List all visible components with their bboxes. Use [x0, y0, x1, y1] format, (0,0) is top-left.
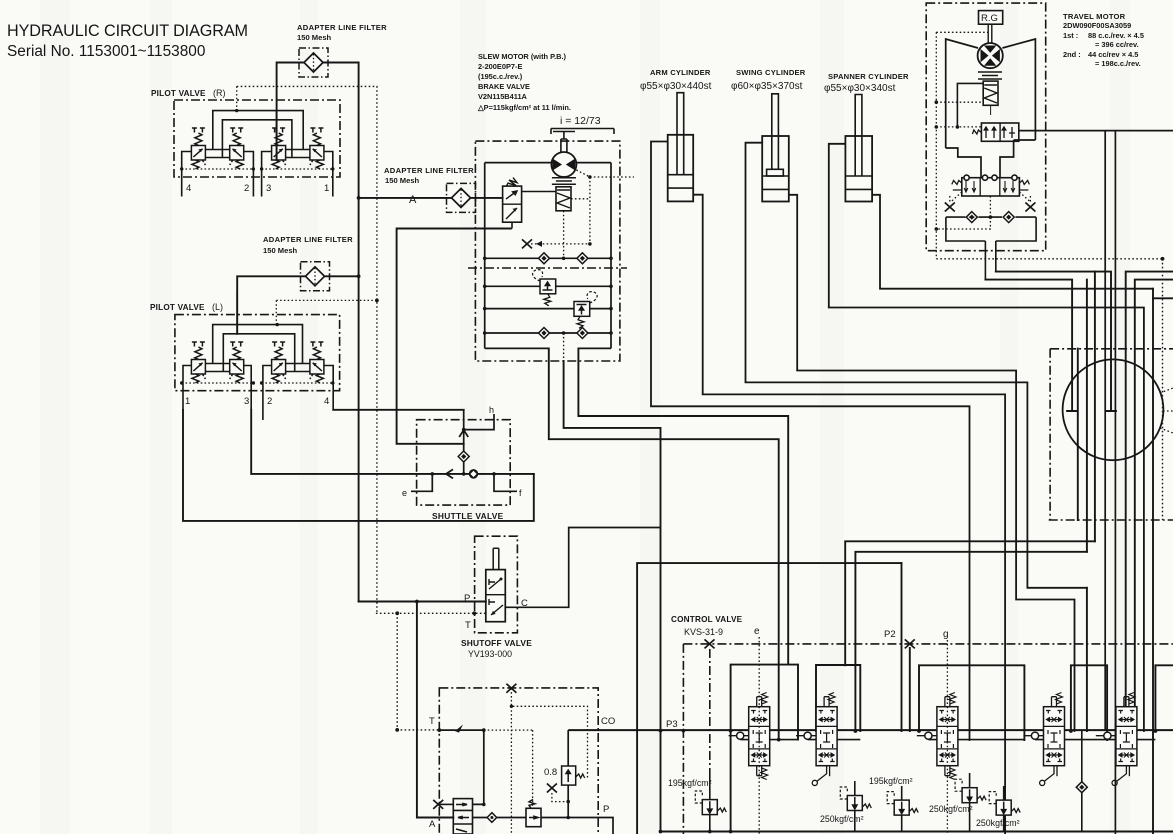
svg-text:P3: P3	[666, 719, 678, 730]
wire slew drain to CV tank bus	[564, 361, 661, 832]
dotted pilot lines bottom block	[455, 688, 588, 834]
right bus vertical	[610, 163, 612, 349]
dotted pilot verticals e and g	[759, 637, 947, 834]
bottom bus	[662, 831, 1173, 833]
wire swing cylinder rod side to CV	[797, 371, 1074, 732]
svg-text:R.G: R.G	[981, 13, 998, 24]
R.G box and shaft	[979, 11, 1003, 25]
svg-text:i = 12/73: i = 12/73	[560, 115, 601, 127]
svg-text:ADAPTER LINE FILTER: ADAPTER LINE FILTER	[263, 235, 353, 244]
svg-text:HYDRAULIC CIRCUIT DIAGRAM: HYDRAULIC CIRCUIT DIAGRAM	[7, 22, 248, 40]
wire arm cylinder rod side to CV	[703, 394, 1005, 834]
wire swivel vertical to CV spool 5	[1152, 289, 1154, 834]
svg-text:44 cc/rev × 4.5: 44 cc/rev × 4.5	[1088, 50, 1138, 59]
wire arm cylinder head side to CV	[651, 406, 970, 740]
pilot units R: 4 2 3 1	[191, 128, 205, 169]
svg-text:e: e	[754, 626, 760, 637]
svg-text:150 Mesh: 150 Mesh	[297, 33, 332, 42]
wire CV return bridge	[637, 563, 901, 834]
4way valve bottom left	[453, 799, 472, 834]
svg-text:h: h	[489, 405, 494, 415]
svg-text:(R): (R)	[213, 88, 226, 98]
svg-text:4: 4	[324, 396, 329, 407]
swing cylinder	[746, 94, 798, 383]
e branch	[411, 474, 432, 491]
svg-text:= 198c.c./rev.: = 198c.c./rev.	[1095, 59, 1141, 68]
wire shutoff C to control valve	[505, 528, 660, 608]
motor left supply line	[485, 163, 552, 259]
counterbalance valve	[952, 175, 1030, 196]
spool S3	[917, 693, 958, 766]
unit output stubs + port lines R	[182, 152, 192, 197]
bottom check bus	[946, 217, 1036, 280]
svg-text:150 Mesh: 150 Mesh	[263, 246, 298, 255]
wire slew port 1 to control valve spool 1	[549, 348, 779, 739]
compensator box	[526, 799, 541, 826]
svg-text:250kgf/cm²: 250kgf/cm²	[976, 818, 1020, 828]
wire travel motor line A to swivel joint bar	[996, 272, 1116, 411]
svg-text:195kgf/cm²: 195kgf/cm²	[869, 776, 913, 786]
T port solid segment	[439, 729, 484, 731]
svg-text:TRAVEL MOTOR: TRAVEL MOTOR	[1063, 12, 1126, 21]
svg-text:Serial No. 1153001~1153800: Serial No. 1153001~1153800	[7, 43, 205, 60]
arm cylinder	[651, 93, 703, 407]
wire spanner cylinder head side to CV	[829, 308, 1144, 732]
wire filter F3 to pilot valve L supply	[237, 276, 358, 334]
svg-text:4: 4	[186, 183, 191, 194]
svg-text:SLEW MOTOR (with P.B.): SLEW MOTOR (with P.B.)	[478, 52, 567, 61]
brake stack	[978, 72, 1002, 79]
dotted pilot feed into box	[236, 86, 238, 110]
dotted exit to travel motor	[590, 176, 634, 178]
svg-text:P: P	[603, 804, 609, 815]
block border	[475, 141, 620, 361]
dotted down to bottom block T	[397, 613, 439, 730]
h branch	[464, 414, 494, 430]
wire travel motor line B to swivel joint bar	[985, 280, 1077, 411]
PV(R) dash-dot enclosure	[174, 100, 340, 177]
wire filter F1 out, long vertical to shutoff P	[328, 63, 359, 602]
svg-text:3: 3	[244, 396, 249, 407]
dotted pilot net inside slew block	[531, 170, 634, 361]
brake valve bottom to left exit	[511, 222, 513, 228]
svg-text:1: 1	[324, 183, 329, 194]
svg-text:2: 2	[244, 183, 249, 194]
brake stack under motor	[552, 178, 576, 184]
spring on brake valve top	[507, 178, 518, 187]
drain dotted lines R	[182, 168, 333, 170]
svg-text:2nd :: 2nd :	[1063, 50, 1081, 59]
wire PV(L) port 3 to shuttle valve	[251, 410, 534, 474]
svg-text:SPANNER CYLINDER: SPANNER CYLINDER	[828, 72, 909, 81]
svg-text:g: g	[943, 629, 949, 640]
dashed pilot loops for relief valves	[695, 779, 996, 803]
feed line segments through spools	[740, 739, 1155, 741]
svg-text:φ60×φ35×370st: φ60×φ35×370st	[731, 81, 803, 92]
CV misc connectors	[710, 649, 1082, 832]
relief valves CV	[702, 800, 726, 815]
svg-text:ARM CYLINDER: ARM CYLINDER	[650, 68, 711, 77]
2 speed valve	[972, 123, 1018, 141]
check on A line	[487, 813, 497, 823]
P/A line	[417, 818, 613, 834]
svg-text:2: 2	[267, 396, 272, 407]
svg-text:ADAPTER LINE FILTER: ADAPTER LINE FILTER	[297, 23, 387, 32]
svg-text:SWING CYLINDER: SWING CYLINDER	[736, 68, 806, 77]
brake release valve (2 cell)	[503, 186, 522, 222]
bottom outline U	[485, 347, 611, 349]
svg-text:T: T	[429, 716, 435, 727]
case outline	[946, 39, 1036, 178]
wire PV(L) port 4 to shuttle top	[333, 409, 464, 411]
valve output right	[1019, 130, 1173, 132]
svg-text:CO: CO	[601, 716, 615, 727]
wire swing cylinder head side to CV	[746, 382, 1087, 587]
pilot sense line from X to main relief	[709, 649, 711, 770]
wire swivel to CV travel feed 2	[855, 552, 1087, 731]
svg-text:= 396 cc/rev.: = 396 cc/rev.	[1095, 40, 1139, 49]
svg-text:△P=115kgf/cm² at 11 l/min.: △P=115kgf/cm² at 11 l/min.	[477, 103, 571, 112]
adapter line filter F1	[299, 48, 328, 77]
svg-text:PILOT VALVE: PILOT VALVE	[151, 89, 206, 98]
adapter line filter F3	[301, 262, 330, 291]
wire PV(L) port 1 loop under shuttle	[183, 410, 534, 521]
pilot units L: 1 3 2 4	[191, 342, 205, 383]
svg-text:T: T	[465, 620, 471, 631]
svg-text:BRAKE VALVE: BRAKE VALVE	[478, 82, 530, 91]
svg-text:A: A	[409, 194, 417, 206]
svg-text:e: e	[402, 488, 407, 498]
wire swivel to CV travel feed 1	[845, 541, 1095, 665]
dotted from PV(R) top area to long vertical	[237, 86, 377, 613]
relief valve bus3	[574, 292, 597, 329]
motor circle	[978, 43, 1003, 68]
cylinder lines routing right	[651, 289, 1153, 834]
wire filter F1 to pilot valve R supply	[277, 63, 328, 159]
svg-text:CONTROL VALVE: CONTROL VALVE	[671, 615, 743, 624]
internal supply arcs	[213, 111, 303, 159]
CO / P3 line	[568, 729, 1173, 731]
svg-text:1: 1	[185, 396, 190, 407]
0.8 unload valve	[562, 766, 585, 785]
svg-text:YV193-000: YV193-000	[468, 649, 512, 659]
svg-text:φ55×φ30×440st: φ55×φ30×440st	[640, 81, 712, 92]
left loop to brake	[957, 83, 983, 127]
svg-text:KVS-31-9: KVS-31-9	[684, 627, 723, 637]
svg-text:P2: P2	[884, 629, 896, 640]
gear symbol i=12/73	[551, 129, 614, 153]
spool feed loops	[731, 665, 1173, 832]
svg-text:(L): (L)	[212, 302, 223, 312]
svg-text:88 c.c./rev. × 4.5: 88 c.c./rev. × 4.5	[1088, 31, 1144, 40]
svg-text:SHUTOFF VALVE: SHUTOFF VALVE	[461, 638, 532, 648]
wire shutoff valve P line	[359, 601, 486, 603]
wire A line through filter F2 into slew block	[359, 197, 503, 199]
top dash-dot border	[683, 644, 1173, 834]
svg-text:PILOT VALVE: PILOT VALVE	[150, 303, 205, 312]
svg-text:195kgf/cm²: 195kgf/cm²	[668, 778, 712, 788]
svg-text:SHUTTLE VALVE: SHUTTLE VALVE	[432, 511, 504, 521]
dotted pilot lines travel motor	[936, 32, 1030, 258]
spool S2	[796, 693, 837, 766]
svg-text:(195c.c./rev.): (195c.c./rev.)	[478, 72, 523, 81]
wire brake valve return to shuttle input	[397, 229, 511, 444]
dotted right lines	[936, 259, 1162, 520]
svg-text:A: A	[429, 819, 436, 830]
svg-text:250kgf/cm²: 250kgf/cm²	[929, 804, 973, 814]
brake cylinder with spring	[983, 81, 998, 105]
svg-text:V2N115B411A: V2N115B411A	[478, 92, 528, 101]
buses	[485, 258, 611, 348]
shutoff T dotted	[376, 612, 486, 614]
svg-text:2DW090F00SA3059: 2DW090F00SA3059	[1063, 21, 1131, 30]
spool S5	[1096, 693, 1137, 766]
bridges between pair boxes	[205, 150, 229, 158]
svg-text:150 Mesh: 150 Mesh	[385, 176, 420, 185]
spool S1	[729, 693, 770, 766]
f branch	[494, 474, 517, 491]
wire spanner cylinder rod side	[880, 288, 1153, 290]
inner dash-dot divider	[468, 267, 627, 269]
wire slew port 2 to CV spool 1 loop	[578, 348, 788, 664]
svg-text:0.8: 0.8	[544, 767, 557, 778]
check valves on buses	[539, 253, 550, 264]
svg-text:1st :: 1st :	[1063, 31, 1078, 40]
svg-text:2-200E0P7-E: 2-200E0P7-E	[478, 62, 522, 71]
svg-text:3: 3	[266, 183, 271, 194]
spool S4	[1023, 693, 1064, 766]
svg-text:250kgf/cm²: 250kgf/cm²	[820, 814, 864, 824]
brake cylinder w/ spring	[556, 187, 571, 211]
svg-text:ADAPTER LINE FILTER: ADAPTER LINE FILTER	[384, 166, 474, 175]
spanner cylinder	[829, 95, 880, 308]
wire riser P to A port of bottom valve	[417, 602, 453, 818]
svg-text:φ55×φ30×340st: φ55×φ30×340st	[824, 83, 896, 94]
relief valve bus2	[533, 270, 556, 306]
link valve to brake cylinder	[522, 191, 556, 193]
adapter line filter F2	[447, 183, 476, 212]
slew motor circle	[551, 152, 576, 177]
